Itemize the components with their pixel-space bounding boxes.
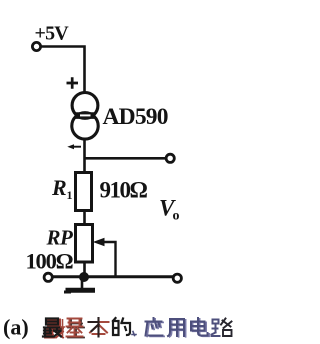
wire +5V terminal to AD590 top: [41, 47, 85, 93]
caption char lu (circuit/road) blue+black: [212, 319, 232, 337]
terminal bottom-left: [44, 273, 52, 281]
blue watermark speck after de: [132, 332, 136, 336]
current source U1 AD590 (two-circle symbol): [72, 93, 98, 140]
svg-text:(a): (a): [3, 315, 29, 340]
terminal bottom-right: [173, 274, 181, 282]
label R1: [51, 175, 73, 202]
svg-text:AD590: AD590: [103, 104, 168, 130]
plus polarity mark: [67, 77, 79, 89]
potentiometer RP body: [76, 225, 93, 263]
ground symbol: [64, 280, 95, 293]
caption char dian (electric) blue watermark: [191, 318, 209, 336]
svg-text:+5V: +5V: [35, 23, 70, 45]
svg-text:o: o: [173, 209, 180, 224]
svg-text:R: R: [51, 175, 67, 200]
red watermark band between zui and ji: [60, 319, 65, 336]
wire node A to output terminal (top): [85, 157, 167, 160]
caption char ben (root) with red watermark: [89, 318, 109, 337]
caption char de (of): [113, 318, 136, 336]
ground rail wire: [53, 275, 174, 278]
label Vo output voltage: [159, 196, 180, 224]
wire RP bottom to ground rail: [83, 262, 86, 277]
terminal +5V input: [32, 42, 40, 50]
dark waist where circles overlap: [75, 112, 96, 119]
terminal output top: [166, 154, 174, 162]
svg-text:1: 1: [67, 188, 73, 202]
resistor R1 body: [76, 173, 92, 211]
caption char yong (use) blue watermark: [168, 319, 186, 337]
svg-text:RP: RP: [46, 226, 74, 250]
svg-text:100Ω: 100Ω: [26, 249, 74, 274]
wire R1 to RP: [83, 211, 86, 226]
caption char ji (base) with red watermark: [67, 319, 85, 338]
caption char ying (apply) blue watermark: [146, 318, 165, 336]
caption char zui (most) with red watermark: [43, 319, 63, 338]
svg-text:910Ω: 910Ω: [100, 178, 148, 203]
wire AD590 bottom to R1: [83, 140, 86, 174]
junction dot: [79, 272, 89, 282]
current direction arrow (minus side): [67, 144, 81, 149]
wiper arrow of RP: [93, 238, 116, 277]
